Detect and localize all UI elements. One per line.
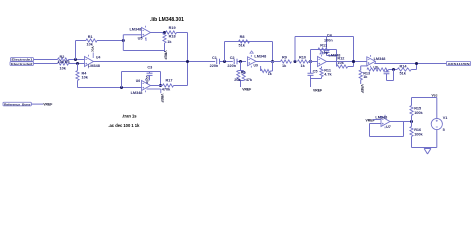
svg-text:220n: 220n	[227, 64, 236, 68]
svg-text:U6: U6	[136, 79, 140, 83]
svg-text:Electrode2: Electrode2	[11, 62, 33, 66]
svg-text:100k: 100k	[414, 133, 423, 137]
svg-text:R9: R9	[282, 56, 287, 60]
svg-text:.tran 1s: .tran 1s	[122, 114, 137, 119]
svg-text:10k: 10k	[82, 75, 89, 79]
svg-text:U9: U9	[254, 63, 258, 67]
svg-text:ADS1115IN: ADS1115IN	[448, 62, 470, 66]
svg-text:20k: 20k	[234, 78, 241, 82]
svg-text:10k: 10k	[58, 60, 65, 64]
svg-text:.ac dec 100 1 1k: .ac dec 100 1 1k	[108, 123, 140, 128]
svg-text:C5: C5	[313, 69, 318, 73]
svg-text:R19: R19	[169, 26, 176, 30]
svg-text:C1: C1	[212, 56, 217, 60]
svg-text:220n: 220n	[210, 64, 219, 68]
svg-text:VREF: VREF	[164, 51, 168, 60]
svg-text:R11: R11	[320, 44, 327, 48]
svg-text:5: 5	[443, 128, 445, 132]
svg-text:U4: U4	[96, 56, 100, 60]
svg-text:C3: C3	[147, 66, 152, 70]
svg-text:R10: R10	[299, 56, 306, 60]
svg-text:R14: R14	[400, 64, 408, 68]
svg-text:R8: R8	[240, 35, 245, 39]
svg-text:VREF: VREF	[43, 103, 52, 107]
svg-text:LM348: LM348	[374, 57, 386, 61]
svg-text:LM348: LM348	[329, 53, 341, 57]
svg-text:LM348: LM348	[88, 64, 100, 68]
svg-text:R15: R15	[414, 107, 421, 111]
svg-text:R1: R1	[88, 35, 93, 39]
svg-text:R5: R5	[241, 70, 246, 74]
svg-text:100n: 100n	[324, 39, 333, 43]
svg-text:4.7k: 4.7k	[324, 73, 332, 77]
svg-text:VREF: VREF	[242, 88, 251, 92]
svg-text:VREF: VREF	[313, 88, 322, 92]
svg-text:R18: R18	[169, 35, 176, 39]
svg-text:R2: R2	[60, 55, 65, 59]
svg-text:1k: 1k	[268, 72, 272, 76]
svg-text:C2: C2	[230, 56, 235, 60]
svg-text:Reference_Bone: Reference_Bone	[4, 102, 31, 106]
svg-text:Vcc: Vcc	[91, 46, 95, 52]
svg-text:VREF: VREF	[160, 94, 164, 103]
svg-text:LM348: LM348	[131, 91, 143, 95]
svg-text:U7: U7	[386, 125, 391, 129]
svg-text:51k: 51k	[239, 43, 246, 47]
svg-text:51k: 51k	[400, 72, 407, 76]
svg-text:VREF: VREF	[360, 84, 364, 93]
svg-text:LM348: LM348	[254, 54, 266, 58]
svg-text:100k: 100k	[414, 111, 423, 115]
svg-text:R16: R16	[414, 128, 421, 132]
svg-text:U5: U5	[138, 37, 143, 41]
svg-text:LM348: LM348	[129, 27, 141, 31]
svg-text:10k: 10k	[60, 66, 67, 70]
svg-text:.lib LM348.301: .lib LM348.301	[150, 17, 184, 23]
svg-text:R17: R17	[166, 78, 173, 82]
svg-text:47k: 47k	[246, 78, 253, 82]
svg-text:LM348: LM348	[375, 116, 387, 120]
svg-text:V1: V1	[443, 116, 448, 120]
svg-text:10k: 10k	[87, 43, 94, 47]
svg-text:Vcc: Vcc	[432, 94, 438, 98]
svg-text:VREF: VREF	[366, 118, 375, 122]
svg-text:470k: 470k	[162, 87, 171, 91]
svg-text:R3: R3	[65, 60, 70, 64]
